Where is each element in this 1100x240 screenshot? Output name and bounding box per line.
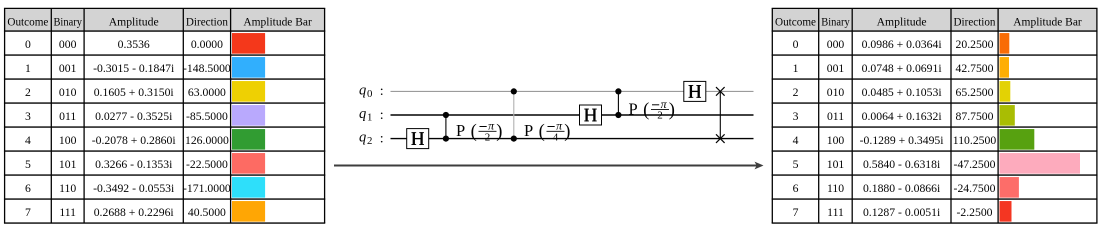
svg-text:-2.2500: -2.2500 <box>956 206 992 219</box>
right table amplitude bar row 6 <box>1000 177 1019 198</box>
svg-text:P: P <box>456 121 465 140</box>
svg-text:101: 101 <box>827 158 845 171</box>
left table row 0 (|000&gt;) <box>25 38 223 51</box>
svg-text:): ) <box>564 122 570 142</box>
CP1 control dot on q2 <box>443 136 449 142</box>
wire q0 <box>391 90 754 92</box>
svg-text:1: 1 <box>367 112 372 124</box>
svg-text:2: 2 <box>25 86 31 99</box>
left table amplitude bar row 1 <box>232 57 265 78</box>
svg-text:0.3536: 0.3536 <box>118 38 150 51</box>
svg-text:001: 001 <box>59 62 77 75</box>
Hadamard gate H2 on q1 <box>580 105 602 125</box>
svg-text:87.7500: 87.7500 <box>956 110 994 123</box>
right table row 5 (|101&gt;) <box>793 158 996 171</box>
svg-text:110: 110 <box>59 182 76 195</box>
svg-text:42.7500: 42.7500 <box>956 62 994 75</box>
svg-text:0: 0 <box>793 38 799 51</box>
svg-text:-0.2078 + 0.2860i: -0.2078 + 0.2860i <box>92 134 177 147</box>
svg-text:65.2500: 65.2500 <box>956 86 994 99</box>
svg-text:Binary: Binary <box>821 14 850 28</box>
svg-text:110.2500: 110.2500 <box>953 134 997 147</box>
svg-text:-22.5000: -22.5000 <box>186 158 228 171</box>
left table row 1 (|001&gt;) <box>25 62 231 75</box>
controlled-phase gate CP2: connector q0-q2 <box>513 91 515 138</box>
right table row 3 (|011&gt;) <box>793 110 994 123</box>
svg-text::: : <box>380 131 384 146</box>
svg-text:): ) <box>669 101 675 121</box>
svg-text:5: 5 <box>793 158 799 171</box>
svg-text:2: 2 <box>657 110 663 122</box>
right table header background <box>772 8 1097 31</box>
left table header background <box>5 8 325 31</box>
svg-text:-85.5000: -85.5000 <box>186 110 228 123</box>
swap gate connector q0-q2 <box>719 91 721 138</box>
left table amplitude bar row 6 <box>232 177 265 198</box>
swap gate cross on q0 <box>716 87 725 96</box>
right table row 1 (|001&gt;) <box>793 62 994 75</box>
CP3 control dot on q1 <box>615 112 621 118</box>
svg-text:q: q <box>359 82 366 98</box>
svg-text:4: 4 <box>25 134 31 147</box>
svg-text:3: 3 <box>793 110 799 123</box>
CP3 control dot on q0 <box>615 88 621 94</box>
svg-text:63.0000: 63.0000 <box>188 86 226 99</box>
svg-text:-148.5000: -148.5000 <box>183 62 231 75</box>
svg-text:(: ( <box>471 122 477 142</box>
left table row 5 (|101&gt;) <box>25 158 228 171</box>
svg-text:1: 1 <box>793 62 799 75</box>
svg-text:0.0277 - 0.3525i: 0.0277 - 0.3525i <box>95 110 173 123</box>
left table row 4 (|100&gt;) <box>25 134 229 147</box>
left table header labels <box>7 14 311 28</box>
right table amplitude bar row 5 <box>1000 153 1081 174</box>
svg-text:Binary: Binary <box>53 14 82 28</box>
svg-text:q: q <box>359 130 366 146</box>
arrow from before-state to after-state <box>334 162 764 170</box>
svg-text:Amplitude Bar: Amplitude Bar <box>243 14 312 28</box>
CP2 label P(-&#960;/4) <box>524 119 570 144</box>
right table amplitude bar row 0 <box>1000 33 1010 54</box>
svg-text:011: 011 <box>827 110 844 123</box>
left table row 7 (|111&gt;) <box>25 206 226 219</box>
svg-text:0.0485 + 0.1053i: 0.0485 + 0.1053i <box>862 86 943 99</box>
svg-text:q: q <box>359 106 366 122</box>
right table amplitude bar row 4 <box>1000 129 1035 150</box>
svg-text:4: 4 <box>793 134 799 147</box>
svg-text:P: P <box>524 121 533 140</box>
svg-text:-0.3492 - 0.0553i: -0.3492 - 0.0553i <box>93 182 175 195</box>
left table row 6 (|110&gt;) <box>25 182 231 195</box>
left table amplitude bar row 5 <box>232 153 265 174</box>
qubit label q1 <box>359 106 384 124</box>
swap gate cross on q2 <box>716 134 725 143</box>
left table amplitude bar row 0 <box>232 33 265 54</box>
left table amplitude bar row 4 <box>232 129 265 150</box>
svg-text:-24.7500: -24.7500 <box>954 182 996 195</box>
right table header labels <box>775 14 1082 28</box>
CP1 label P(-&#960;/2) <box>456 119 502 144</box>
svg-text:0.1880 - 0.0866i: 0.1880 - 0.0866i <box>863 182 941 195</box>
svg-text::: : <box>380 84 384 99</box>
svg-text:Amplitude: Amplitude <box>877 14 927 28</box>
svg-text:011: 011 <box>59 110 76 123</box>
svg-text:6: 6 <box>25 182 31 195</box>
right table row 6 (|110&gt;) <box>793 182 996 195</box>
svg-text:010: 010 <box>59 86 77 99</box>
right table row 7 (|111&gt;) <box>793 206 993 219</box>
svg-text:101: 101 <box>59 158 77 171</box>
left table row 2 (|010&gt;) <box>25 86 226 99</box>
svg-text:Amplitude Bar: Amplitude Bar <box>1013 14 1082 28</box>
svg-text:-0.1289 + 0.3495i: -0.1289 + 0.3495i <box>860 134 945 147</box>
svg-text:2: 2 <box>367 135 372 147</box>
svg-text:-47.2500: -47.2500 <box>954 158 996 171</box>
Hadamard gate H1 on q2 <box>407 129 429 149</box>
svg-text::: : <box>380 108 384 123</box>
svg-text:0.0000: 0.0000 <box>191 38 223 51</box>
svg-text:7: 7 <box>793 206 799 219</box>
left table amplitude bar row 2 <box>232 81 265 102</box>
left table grid <box>4 8 325 223</box>
svg-text:100: 100 <box>827 134 845 147</box>
svg-text:6: 6 <box>793 182 799 195</box>
controlled-phase gate CP3: connector q0-q1 <box>617 91 619 115</box>
right table amplitude bar row 1 <box>1000 57 1010 78</box>
left table amplitude bar row 3 <box>232 105 265 126</box>
svg-text:111: 111 <box>827 206 844 219</box>
right table amplitude bar row 7 <box>1000 201 1012 222</box>
wire q2 <box>391 138 754 140</box>
svg-text:1: 1 <box>25 62 31 75</box>
svg-text:(: ( <box>643 101 649 121</box>
left table row 3 (|011&gt;) <box>25 110 228 123</box>
svg-text:20.2500: 20.2500 <box>956 38 994 51</box>
controlled-phase gate CP1: connector q1-q2 <box>445 115 447 139</box>
svg-text:0.5840 - 0.6318i: 0.5840 - 0.6318i <box>863 158 941 171</box>
svg-text:(: ( <box>539 122 545 142</box>
svg-text:Direction: Direction <box>186 14 228 28</box>
svg-text:2: 2 <box>793 86 799 99</box>
right table row 0 (|000&gt;) <box>793 38 994 51</box>
qubit label q2 <box>359 130 384 148</box>
svg-text:7: 7 <box>25 206 31 219</box>
svg-text:0.0748 + 0.0691i: 0.0748 + 0.0691i <box>862 62 943 75</box>
right table amplitude bar row 2 <box>1000 81 1011 102</box>
qubit label q0 <box>359 82 384 100</box>
svg-text:0.0064 + 0.1632i: 0.0064 + 0.1632i <box>862 110 943 123</box>
right table row 4 (|100&gt;) <box>793 134 997 147</box>
svg-text:0.0986 + 0.0364i: 0.0986 + 0.0364i <box>862 38 943 51</box>
CP3 label P(-&#960;/2) <box>629 97 675 122</box>
svg-text:100: 100 <box>59 134 77 147</box>
svg-text:0.1605 + 0.3150i: 0.1605 + 0.3150i <box>94 86 175 99</box>
svg-text:110: 110 <box>827 182 844 195</box>
right table grid <box>772 8 1098 223</box>
svg-text:Direction: Direction <box>954 14 996 28</box>
svg-text:40.5000: 40.5000 <box>188 206 226 219</box>
svg-text:126.0000: 126.0000 <box>185 134 229 147</box>
wire q1 <box>391 114 754 116</box>
svg-text:0: 0 <box>367 88 372 100</box>
svg-text:0.1287 - 0.0051i: 0.1287 - 0.0051i <box>863 206 941 219</box>
svg-text:Amplitude: Amplitude <box>109 14 159 28</box>
svg-text:Outcome: Outcome <box>7 14 48 28</box>
right table row 2 (|010&gt;) <box>793 86 994 99</box>
CP2 control dot on q0 <box>511 88 517 94</box>
svg-text:0.2688 + 0.2296i: 0.2688 + 0.2296i <box>94 206 175 219</box>
svg-text:0: 0 <box>25 38 31 51</box>
svg-text:4: 4 <box>553 131 559 143</box>
svg-text:3: 3 <box>25 110 31 123</box>
svg-text:Outcome: Outcome <box>775 14 816 28</box>
svg-text:001: 001 <box>827 62 845 75</box>
svg-text:2: 2 <box>485 131 491 143</box>
svg-text:000: 000 <box>59 38 77 51</box>
right table amplitude bar row 3 <box>1000 105 1015 126</box>
svg-text:): ) <box>496 122 502 142</box>
svg-text:111: 111 <box>59 206 76 219</box>
svg-text:P: P <box>629 100 638 119</box>
svg-text:-0.3015 - 0.1847i: -0.3015 - 0.1847i <box>93 62 175 75</box>
svg-text:-171.0000: -171.0000 <box>183 182 231 195</box>
svg-text:000: 000 <box>827 38 845 51</box>
CP1 control dot on q1 <box>443 112 449 118</box>
svg-text:5: 5 <box>25 158 31 171</box>
Hadamard gate H3 on q0 <box>684 81 706 101</box>
svg-text:010: 010 <box>827 86 845 99</box>
CP2 control dot on q2 <box>511 136 517 142</box>
svg-text:0.3266 - 0.1353i: 0.3266 - 0.1353i <box>95 158 173 171</box>
left table amplitude bar row 7 <box>232 201 265 222</box>
